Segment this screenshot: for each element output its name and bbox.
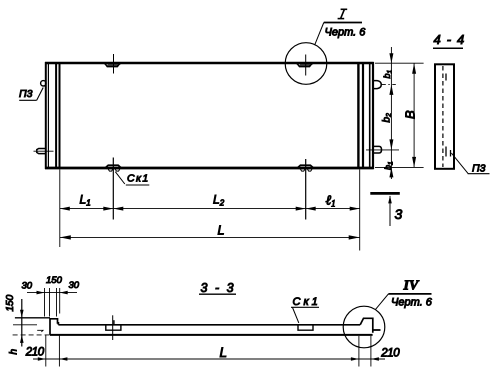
lifting loop bottom-right (bump on bottom edge): [297, 159, 313, 220]
profile: small tick near lip left face: [37, 330, 43, 332]
loop axis / extension for L1: [112, 158, 114, 220]
hook right bottom (staple): [366, 146, 399, 153]
panel left end line 2: [47, 63, 49, 168]
svg-text:h: h: [9, 349, 20, 355]
svg-text:3-3: 3-3: [201, 281, 242, 295]
panel left end line 3: [55, 63, 57, 168]
dimension line L1/L2/l1: [60, 208, 360, 210]
svg-text:Ск1: Ск1: [127, 173, 150, 185]
arrows dim line 1: [60, 207, 70, 211]
svg-text:210: 210: [380, 347, 400, 359]
svg-text:П3: П3: [19, 88, 33, 100]
leader of detail I: [315, 23, 324, 45]
profile: bottom extension left (dashed): [13, 334, 50, 336]
label I: [338, 9, 348, 18]
panel left outer edge: [45, 62, 47, 169]
leader of detail IV: [375, 294, 388, 310]
embedded bracket left (section): [106, 320, 121, 330]
extension line left: [59, 170, 61, 248]
loop axis: [113, 54, 115, 74]
hook П3 top-left (small ring): [41, 81, 47, 88]
extension line right: [359, 170, 361, 251]
panel right outer edge: [372, 62, 374, 169]
hidden axis dashed: [442, 66, 444, 167]
svg-text:30: 30: [69, 280, 80, 291]
hook right top (pointed lug): [374, 81, 396, 89]
loop axis: [305, 55, 307, 76]
svg-text:4-4: 4-4: [434, 32, 471, 47]
bracket mark top: [445, 74, 447, 81]
detail circle I: [285, 43, 327, 85]
label line IV: [388, 293, 431, 295]
profile: lip top extension line: [15, 317, 50, 319]
svg-text:210: 210: [25, 346, 45, 358]
panel right end line 3: [369, 63, 371, 168]
dimension line L: [60, 236, 360, 238]
Ск1 label top view: [115, 172, 149, 185]
panel top edge: [45, 62, 374, 64]
svg-text:b1: b1: [382, 69, 393, 78]
section cut mark 3: [370, 193, 402, 226]
svg-text:L2: L2: [213, 193, 225, 208]
profile: bottom line: [50, 334, 373, 336]
svg-text:3: 3: [395, 206, 403, 222]
П3 label top-left: [19, 88, 43, 101]
svg-text:L1: L1: [80, 193, 91, 208]
lifting loop top-left recess: [104, 54, 120, 74]
detail circle IV: [343, 306, 385, 348]
profile: right lip with chamfer: [360, 318, 380, 333]
extension line bottom (B): [375, 166, 424, 168]
axis dash-dot: [382, 83, 396, 85]
extension line top (B): [375, 62, 424, 64]
b1 top arrows: [389, 53, 393, 63]
svg-text:L: L: [218, 223, 225, 237]
panel left end inner face: [59, 63, 61, 168]
svg-text:В: В: [403, 110, 418, 119]
svg-text:b1: b1: [383, 161, 394, 170]
arrows dim line L: [60, 235, 71, 239]
svg-text:L: L: [220, 345, 228, 360]
svg-text:Черт. 6: Черт. 6: [391, 297, 433, 309]
panel bottom edge: [45, 167, 374, 170]
B dimension line: [413, 63, 415, 167]
profile: slab top extension left: [13, 324, 37, 326]
svg-text:Черт. 6: Черт. 6: [325, 27, 367, 39]
b1 bottom arrow: [389, 167, 393, 177]
svg-text:b2: b2: [382, 113, 394, 123]
bracket axis: [112, 315, 114, 340]
section outline: [435, 64, 454, 169]
Ск1 label section: [291, 296, 321, 323]
svg-text:150: 150: [46, 275, 63, 286]
leader to П3: [451, 153, 468, 174]
b2 arrows: [389, 139, 393, 150]
B arrows: [412, 63, 416, 73]
svg-text:150: 150: [5, 294, 16, 311]
svg-text:ℓ1: ℓ1: [326, 193, 336, 209]
panel right end line 2: [362, 63, 364, 168]
svg-text:П3: П3: [472, 163, 486, 175]
hook left middle (staple): [34, 149, 54, 154]
loop axis / extension for L2: [305, 159, 307, 220]
label line of detail I: [324, 22, 362, 24]
svg-text:IV: IV: [403, 279, 420, 294]
lifting loop bottom-left (bump on bottom edge): [105, 158, 121, 220]
profile: slab top: [58, 324, 360, 326]
lifting loop top-right recess (inside detail circle I): [297, 55, 313, 76]
svg-text:30: 30: [22, 281, 33, 292]
bracket mark bottom: [445, 147, 447, 157]
profile: left lip: [50, 318, 58, 335]
embedded bracket Ск1 (section): [298, 325, 313, 330]
panel right end inner face: [357, 63, 359, 168]
svg-text:Ск1: Ск1: [293, 296, 321, 308]
b dimension line: [390, 47, 392, 179]
